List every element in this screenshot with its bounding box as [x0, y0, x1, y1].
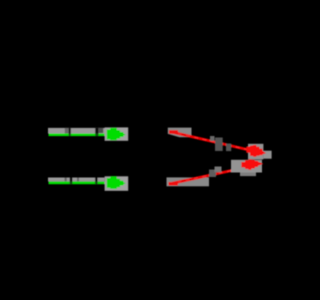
gray box behind v2 arrowhead	[105, 176, 129, 191]
gray patch along p1 (large)	[215, 138, 223, 152]
gray box behind p2 arrowhead	[231, 160, 262, 173]
red vector p1 arrowhead	[246, 145, 266, 157]
red vector p1 shaft	[170, 132, 259, 153]
green vector v2 shaft	[49, 182, 109, 185]
gray box behind p1 arrowhead	[248, 144, 263, 160]
green vector v1 shaft	[49, 133, 109, 136]
dark-green dim of v1 shaft under mark b	[69, 133, 71, 136]
label text mark c (v1 band)	[95, 128, 98, 134]
red vector p2 start blob	[169, 182, 179, 186]
label text mark a (v2 band)	[65, 178, 67, 182]
label text mark b (v1 band)	[69, 128, 71, 134]
gray patch along p1 (lower)	[226, 144, 231, 152]
red vector p2 shaft	[169, 167, 248, 184]
label text mark c (v2 band)	[77, 178, 79, 182]
red vector p2 arrowhead	[241, 159, 263, 170]
label text mark b (v2 band)	[70, 178, 73, 182]
label band above green vector v2	[48, 178, 105, 182]
gray box behind v1 arrowhead	[105, 127, 129, 140]
gray strip below p2 arrowhead box	[240, 173, 256, 177]
dark-green dim of v2 shaft under mark d	[95, 182, 98, 185]
red vector p1 shaft bead highlights	[170, 132, 259, 153]
red vector p1 start blob	[169, 130, 178, 133]
gray patch along p2 (upper)	[215, 167, 222, 173]
gray patch along p1 (small)	[210, 136, 215, 141]
dark-green dim of v2 shaft under mark b	[70, 182, 73, 185]
label box at start of red vector p2	[167, 177, 210, 186]
label box at start of red vector p1	[168, 128, 192, 138]
dark-green dim of v1 shaft under mark c	[95, 133, 98, 136]
green vector v2 arrowhead	[107, 176, 126, 189]
gray box extension right of p1 arrowhead	[263, 151, 271, 159]
label text mark d (v2 band)	[95, 178, 98, 182]
gray patch along p2 (lower)	[209, 170, 216, 178]
green vector v1 arrowhead	[107, 128, 126, 141]
label text mark a (v1 band)	[65, 128, 69, 134]
red vector p2 shaft bead highlights	[169, 167, 248, 184]
label text mark d (v1 band)	[99, 128, 104, 133]
label band above green vector v1	[48, 128, 105, 134]
